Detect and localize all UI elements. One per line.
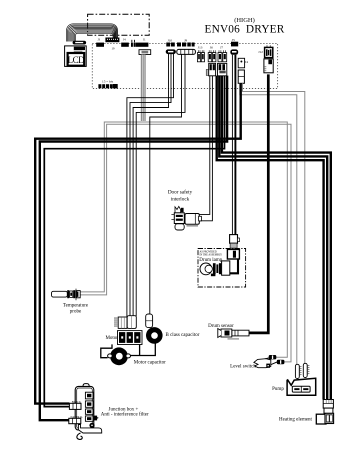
svg-text:LCD: LCD <box>67 55 85 65</box>
svg-text:IN THE ASSEMBLY: IN THE ASSEMBLY <box>200 254 223 257</box>
svg-text:interlock: interlock <box>171 197 190 203</box>
svg-text:ENV06 DRYER: ENV06 DRYER <box>204 23 284 35</box>
svg-text:J6: J6 <box>210 45 213 49</box>
svg-text:Motor capacitor: Motor capacitor <box>134 361 166 366</box>
svg-text:J9: J9 <box>184 38 187 42</box>
svg-text:Pump: Pump <box>272 387 284 392</box>
svg-text:Drum sensor: Drum sensor <box>208 324 234 329</box>
svg-text:J13: J13 <box>198 45 203 49</box>
svg-text:Door safety: Door safety <box>168 189 193 196</box>
svg-text:Motor: Motor <box>105 336 118 341</box>
svg-text:Anti - interference filter: Anti - interference filter <box>101 413 149 418</box>
svg-text:Drum lamp: Drum lamp <box>199 258 222 263</box>
svg-text:Heating element: Heating element <box>279 418 313 423</box>
svg-text:J5: J5 <box>232 38 235 42</box>
svg-text:B class capacitor: B class capacitor <box>166 333 200 338</box>
svg-text:Level switch: Level switch <box>230 364 256 369</box>
svg-text:Temperature: Temperature <box>63 303 89 308</box>
svg-text:J10: J10 <box>168 38 173 42</box>
svg-text:J12: J12 <box>258 50 263 54</box>
svg-text:15 ~ b/n: 15 ~ b/n <box>102 79 114 83</box>
svg-text:J7: J7 <box>220 45 223 49</box>
svg-text:probe: probe <box>70 309 82 314</box>
svg-text:J4: J4 <box>245 60 248 64</box>
